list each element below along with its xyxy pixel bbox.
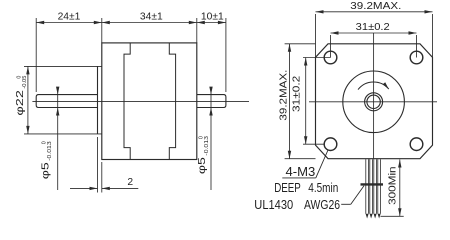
svg-text:φ5: φ5 (197, 157, 208, 174)
svg-text:4.5min: 4.5min (308, 181, 338, 195)
svg-text:φ22: φ22 (15, 90, 26, 116)
svg-text:300Min: 300Min (387, 166, 398, 205)
svg-text:34±1: 34±1 (140, 12, 163, 23)
svg-text:-0.013: -0.013 (47, 141, 53, 161)
svg-text:31±0.2: 31±0.2 (292, 75, 303, 112)
svg-text:39.2MAX.: 39.2MAX. (279, 70, 290, 121)
svg-text:24±1: 24±1 (58, 12, 81, 23)
svg-text:2: 2 (127, 177, 133, 188)
svg-text:-0.05: -0.05 (22, 76, 28, 89)
svg-text:-0.013: -0.013 (204, 136, 210, 156)
svg-text:DEEP: DEEP (274, 181, 301, 195)
svg-text:AWG26: AWG26 (304, 198, 340, 212)
svg-text:10±1: 10±1 (201, 12, 224, 23)
svg-text:UL1430: UL1430 (254, 198, 293, 212)
svg-text:4-M3: 4-M3 (286, 165, 316, 179)
svg-text:31±0.2: 31±0.2 (356, 22, 390, 33)
svg-text:39.2MAX.: 39.2MAX. (350, 1, 401, 12)
svg-text:φ5: φ5 (41, 162, 52, 179)
